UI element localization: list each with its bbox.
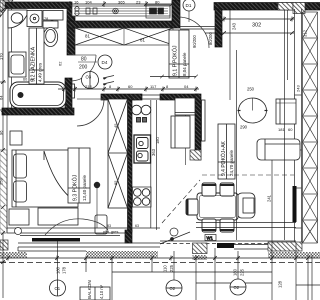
sofa	[257, 139, 300, 160]
svg-text:D1: D1	[186, 3, 192, 8]
svg-text:117: 117	[150, 84, 157, 89]
pier between doors	[125, 230, 132, 243]
svg-text:80: 80	[155, 0, 160, 5]
bottom dimension line 1	[0, 257, 320, 259]
bathroom cabinet	[9, 52, 26, 77]
svg-text:243: 243	[232, 22, 237, 30]
bedroom furniture	[9, 99, 107, 234]
door symbol D1	[183, 0, 195, 11]
dresser at bed foot	[38, 208, 78, 225]
svg-text:178: 178	[62, 266, 67, 274]
living room furniture	[162, 98, 300, 223]
kitchen hob	[133, 187, 152, 207]
svg-text:81: 81	[140, 38, 145, 43]
washing machine	[27, 11, 42, 27]
kitchen sink unit	[134, 135, 151, 163]
svg-text:64: 64	[0, 95, 4, 100]
svg-text:80/200: 80/200	[208, 32, 213, 45]
loggia strip above band B	[72, 6, 170, 16]
svg-text:302: 302	[252, 23, 261, 29]
leader diagonal	[160, 232, 190, 244]
nightstand upper	[10, 131, 22, 145]
bedroom label box	[68, 148, 90, 203]
bathroom fixtures	[8, 10, 75, 108]
nightstand lower	[9, 209, 29, 225]
svg-text:180: 180	[56, 266, 61, 274]
toilet WC	[43, 11, 63, 21]
doormat dark blocks	[150, 8, 157, 14]
svg-text:250: 250	[247, 87, 255, 92]
svg-text:D4: D4	[102, 60, 108, 65]
top dimension line	[70, 3, 172, 5]
balcony label box	[80, 287, 110, 300]
hallway wardrobe with X	[108, 99, 128, 208]
hallway closet	[171, 98, 195, 165]
svg-text:O2: O2	[170, 286, 176, 291]
svg-text:128: 128	[278, 280, 283, 288]
wall step connector	[67, 8, 75, 55]
window symbol circle bottom-left	[50, 0, 247, 296]
wall band C (living exterior top)	[214, 3, 320, 11]
svg-text:9,4 POKÓJ+AK: 9,4 POKÓJ+AK	[220, 140, 227, 176]
kitchen counter edge	[150, 100, 152, 228]
blanket curve	[44, 151, 77, 203]
bedroom bottom wall	[7, 227, 160, 229]
pillow 1	[14, 154, 27, 178]
svg-text:85: 85	[113, 180, 118, 185]
entry door opening lines	[180, 26, 215, 28]
bathroom label box	[29, 28, 44, 84]
door symbol O3	[82, 72, 99, 89]
bottom walls and balcony	[0, 219, 320, 285]
interior dim vertical living	[284, 10, 286, 240]
wall top band A (bathroom exterior)	[5, 2, 72, 9]
svg-text:243: 243	[296, 85, 301, 92]
entry side wall	[172, 0, 180, 28]
svg-text:9,1 P.POKÓJ: 9,1 P.POKÓJ	[172, 45, 179, 76]
vestibule wall	[215, 9, 222, 47]
svg-text:180: 180	[233, 268, 238, 276]
svg-text:4,49 gres: 4,49 gres	[38, 62, 43, 82]
pier hatch middle bottom	[193, 243, 208, 254]
kitchen top wall right segment	[160, 94, 199, 100]
radiator by wall	[72, 84, 75, 98]
svg-text:225: 225	[240, 268, 245, 276]
svg-text:365: 365	[118, 0, 125, 5]
left corner pier	[0, 240, 8, 250]
svg-text:225: 225	[169, 264, 174, 272]
desk by right wall	[276, 99, 296, 124]
living top dim line	[222, 18, 294, 20]
svg-text:O2: O2	[234, 285, 240, 290]
bedroom left hatched neighbour wall	[0, 150, 7, 233]
svg-text:312: 312	[303, 29, 308, 37]
svg-text:241: 241	[266, 194, 271, 202]
svg-text:16: 16	[74, 0, 79, 5]
left dimension column	[2, 0, 4, 298]
svg-text:BALKON: BALKON	[87, 280, 92, 299]
wall corner hatch top-left	[0, 0, 13, 17]
wall end cap hatch	[190, 150, 201, 160]
svg-text:170: 170	[0, 53, 4, 60]
hallway label box	[169, 30, 189, 78]
balcony X-brace band over hallway	[75, 28, 173, 45]
svg-text:78: 78	[44, 17, 48, 21]
svg-text:180: 180	[155, 137, 160, 144]
armchair	[237, 193, 255, 218]
svg-text:O3: O3	[86, 75, 92, 80]
svg-text:O1: O1	[55, 286, 61, 291]
table	[197, 193, 238, 220]
radiator on kitchen wall	[202, 100, 206, 141]
svg-text:63: 63	[135, 224, 139, 228]
bathroom right wall lower	[65, 78, 72, 108]
bottom dashed line	[0, 262, 320, 264]
dining set	[186, 183, 238, 232]
bathroom door swing arc	[70, 55, 96, 81]
svg-text:96: 96	[0, 130, 4, 135]
svg-text:80: 80	[81, 57, 87, 63]
svg-text:24,70 panele: 24,70 panele	[229, 149, 234, 176]
kitchen sink bowls	[132, 96, 151, 228]
svg-text:9,3 POKÓJ: 9,3 POKÓJ	[72, 174, 79, 201]
balcony door lines living	[234, 244, 268, 246]
balcony lattice column right	[303, 12, 318, 243]
symbol P circle middle	[166, 280, 182, 296]
balcony door threshold (black)	[32, 238, 80, 242]
living bottom wall	[196, 222, 296, 224]
chair top 2	[220, 183, 234, 196]
bottom line 2	[112, 271, 272, 273]
svg-text:290: 290	[240, 125, 248, 130]
svg-text:218: 218	[85, 84, 92, 89]
kitchen dim vertical	[156, 100, 158, 230]
living balcony threshold	[217, 243, 234, 248]
living/kitchen divider wall	[195, 94, 201, 160]
wall under bathtub	[2, 108, 74, 115]
dashed centre line	[202, 174, 294, 176]
svg-text:181: 181	[278, 127, 285, 132]
svg-text:258: 258	[0, 178, 4, 185]
svg-text:4,10 m²: 4,10 m²	[99, 284, 104, 299]
kitchen left wall (vertical)	[128, 100, 133, 232]
svg-text:110: 110	[163, 265, 168, 272]
svg-text:200: 200	[79, 65, 88, 71]
bed	[12, 150, 78, 207]
corner hatch top-right	[293, 3, 305, 14]
svg-text:104: 104	[85, 0, 92, 5]
vent double circle	[113, 8, 119, 14]
svg-text:363: 363	[151, 148, 156, 156]
svg-text:60: 60	[23, 78, 27, 82]
black radiator right wall	[293, 186, 297, 222]
insulation strip middle	[86, 251, 158, 258]
right wall of living room	[294, 9, 296, 243]
svg-text:W1: W1	[207, 236, 214, 241]
vestibule dim vertical	[229, 9, 231, 100]
round table	[239, 98, 267, 123]
bathroom left wall	[7, 9, 9, 110]
pillow 2	[14, 181, 27, 202]
pier hatch near top-right	[278, 3, 293, 11]
door symbol D4	[98, 55, 112, 69]
bedroom door arc	[77, 99, 104, 126]
svg-text:13,40 panele: 13,40 panele	[82, 174, 87, 201]
wall band B (hallway exterior)	[67, 21, 173, 28]
svg-text:70: 70	[66, 84, 71, 89]
svg-text:45: 45	[113, 123, 118, 128]
entry door swing arc	[178, 17, 209, 48]
svg-text:04: 04	[184, 84, 189, 89]
vent circles	[75, 7, 79, 11]
svg-text:81: 81	[85, 34, 90, 39]
svg-text:40: 40	[30, 78, 34, 82]
svg-text:23: 23	[136, 0, 141, 5]
hallway dim line	[58, 88, 199, 90]
corner washbasin	[8, 10, 27, 28]
svg-text:62: 62	[58, 61, 63, 66]
chair bottom 2	[220, 219, 234, 232]
balcony door swing (bedroom)	[45, 219, 108, 235]
balcony door sill lines	[20, 235, 120, 237]
svg-text:90/200: 90/200	[192, 35, 197, 48]
svg-text:60: 60	[288, 127, 293, 132]
svg-text:60: 60	[128, 84, 133, 89]
insulation strip left	[0, 252, 27, 258]
chair bottom 1	[202, 219, 216, 232]
chair left	[186, 199, 198, 215]
living label box	[218, 124, 235, 179]
niche frame	[146, 5, 170, 18]
verticals in bottom strip	[111, 258, 113, 300]
hatch band bottom right	[268, 242, 302, 251]
chair top 1	[202, 183, 216, 196]
symbol P circle right	[230, 279, 246, 295]
ceiling point dot	[94, 182, 100, 188]
kitchen top wall left segment	[101, 94, 142, 100]
kitchen opening lines	[142, 94, 160, 96]
bathtub	[10, 82, 66, 108]
svg-text:8,04 panele: 8,04 panele	[182, 52, 187, 76]
svg-text:płyt. gres: płyt. gres	[103, 230, 119, 234]
